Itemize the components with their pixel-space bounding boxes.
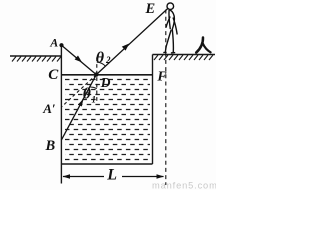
svg-text:L: L	[106, 166, 117, 183]
svg-text:E: E	[145, 1, 156, 17]
svg-text:F: F	[156, 70, 167, 85]
svg-text:θ: θ	[96, 49, 105, 66]
svg-text:A: A	[49, 36, 58, 50]
svg-text:2: 2	[105, 55, 111, 65]
svg-text:A′: A′	[42, 101, 56, 116]
svg-text:1: 1	[92, 95, 97, 105]
svg-text:C: C	[48, 67, 59, 83]
svg-text:D: D	[100, 75, 111, 90]
svg-text:θ: θ	[83, 85, 91, 102]
svg-text:B: B	[45, 138, 56, 154]
svg-text:manfen5.com: manfen5.com	[152, 181, 216, 191]
